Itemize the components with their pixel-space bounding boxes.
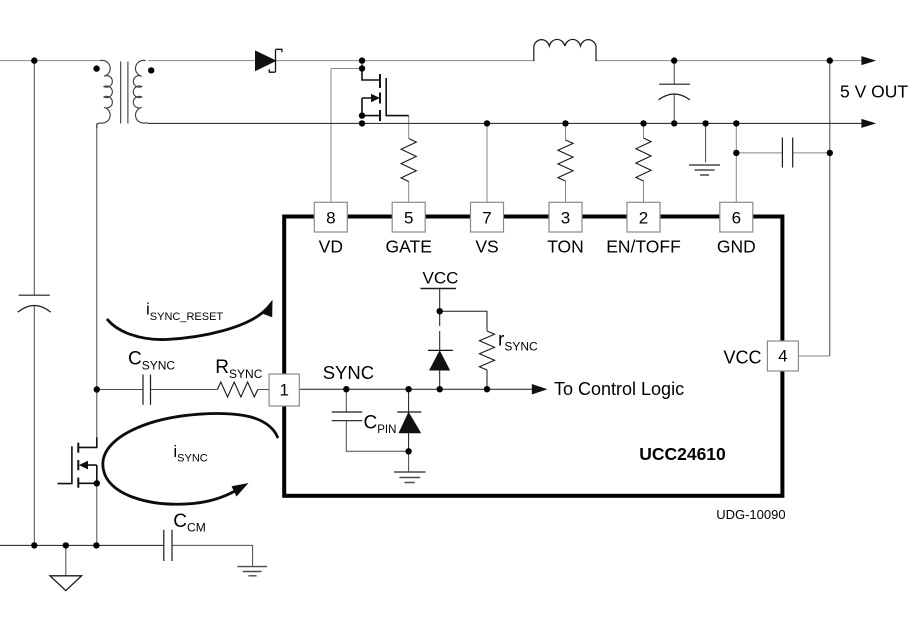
- svg-text:GATE: GATE: [386, 237, 432, 257]
- svg-text:TON: TON: [547, 237, 584, 257]
- svg-text:5 V OUT: 5 V OUT: [840, 82, 908, 102]
- svg-text:VS: VS: [475, 237, 498, 257]
- svg-text:rSYNC: rSYNC: [498, 329, 538, 353]
- svg-text:VCC: VCC: [423, 268, 459, 287]
- svg-text:VD: VD: [319, 237, 343, 257]
- svg-text:To Control Logic: To Control Logic: [554, 379, 684, 399]
- svg-text:SYNC: SYNC: [323, 362, 374, 383]
- svg-text:CPIN: CPIN: [364, 412, 397, 436]
- svg-text:EN/TOFF: EN/TOFF: [606, 237, 681, 257]
- svg-text:8: 8: [326, 209, 335, 228]
- svg-text:6: 6: [732, 209, 741, 228]
- svg-text:CSYNC: CSYNC: [128, 348, 175, 372]
- svg-text:iSYNC: iSYNC: [173, 442, 207, 465]
- svg-text:7: 7: [482, 209, 491, 228]
- svg-text:RSYNC: RSYNC: [215, 357, 262, 381]
- svg-text:3: 3: [561, 209, 570, 228]
- svg-text:2: 2: [639, 209, 648, 228]
- svg-text:4: 4: [778, 347, 787, 366]
- svg-text:5: 5: [404, 209, 413, 228]
- svg-text:UCC24610: UCC24610: [639, 444, 726, 464]
- svg-text:UDG-10090: UDG-10090: [716, 507, 785, 522]
- svg-text:iSYNC_RESET: iSYNC_RESET: [146, 300, 223, 324]
- svg-text:1: 1: [279, 381, 288, 400]
- svg-text:GND: GND: [717, 237, 756, 257]
- svg-text:VCC: VCC: [723, 348, 761, 368]
- svg-text:CCM: CCM: [173, 511, 205, 535]
